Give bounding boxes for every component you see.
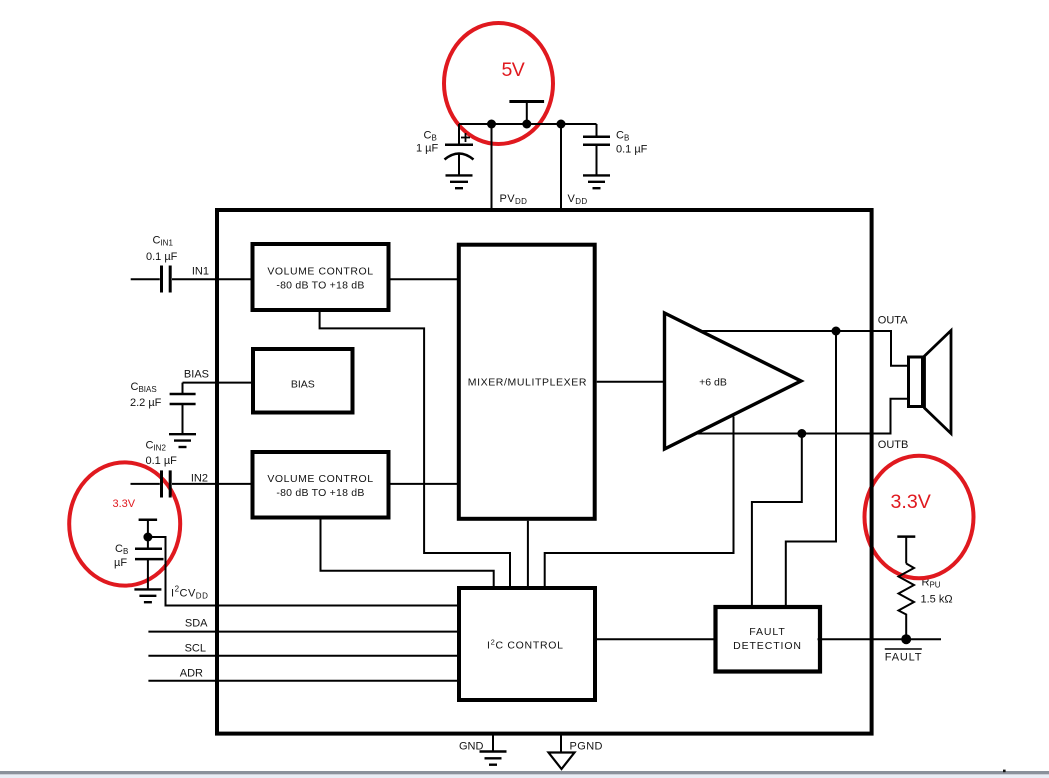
svg-text:OUTA: OUTA [878, 315, 908, 327]
node junction CB left [143, 533, 152, 542]
wire OUTB [695, 399, 909, 434]
svg-text:3.3V: 3.3V [113, 498, 136, 510]
bottom scrollbar strip [0, 771, 1049, 774]
red annotation circle 3.3V right [865, 456, 974, 579]
capacitor CBIAS 2.2uF [130, 381, 196, 434]
wire top supply rail [459, 123, 597, 125]
wire mixer bottom to I2C control [527, 521, 529, 588]
svg-text:VOLUME CONTROL: VOLUME CONTROL [267, 473, 373, 485]
resistor RPU 1.5k pullup [899, 564, 915, 640]
wire ADR [148, 680, 459, 682]
wire GND pin [492, 734, 494, 752]
wire mixer output to amp [597, 381, 665, 383]
pin label FAULT (active low) [885, 649, 922, 664]
node junction FAULT [901, 634, 911, 644]
svg-text:DETECTION: DETECTION [733, 640, 802, 652]
svg-text:OUTB: OUTB [878, 439, 909, 451]
svg-text:IN2: IN2 [191, 473, 208, 485]
wire SDA [148, 631, 459, 633]
svg-text:5V: 5V [502, 59, 525, 81]
block VOLUME CONTROL 1 [253, 244, 389, 310]
wire PGND pin [560, 734, 562, 753]
node junction VDD [557, 120, 566, 129]
svg-text:2.2 µF: 2.2 µF [130, 397, 162, 409]
wire BIAS [183, 382, 254, 384]
capacitor CB 1uF (polarized) [416, 124, 474, 175]
wire SCL [148, 655, 459, 657]
wire I2CVDD [148, 537, 459, 606]
ground (CB left) [134, 589, 161, 602]
wire IN1 [172, 278, 253, 280]
node junction 5V [522, 120, 531, 129]
block FAULT DETECTION [716, 607, 821, 672]
svg-text:IN1: IN1 [192, 266, 209, 278]
resistor RPU label (under red circle) [921, 577, 953, 606]
wire I2C control to fault detection [595, 638, 717, 640]
wire OUTA feedback to fault detection [786, 331, 836, 606]
svg-text:µF: µF [114, 557, 127, 569]
svg-text:SCL: SCL [185, 643, 206, 655]
wire VC1 bottom to I2C control [320, 312, 510, 588]
svg-text:SDA: SDA [185, 618, 208, 630]
IC big box U1 [217, 210, 872, 734]
svg-text:-80 dB TO +18 dB: -80 dB TO +18 dB [276, 487, 364, 499]
block VOLUME CONTROL 2 [253, 452, 389, 518]
svg-text:1 µF: 1 µF [416, 143, 439, 155]
svg-text:FAULT: FAULT [749, 626, 785, 638]
svg-text:FAULT: FAULT [885, 652, 922, 664]
svg-text:0.1 µF: 0.1 µF [616, 144, 648, 156]
svg-text:I2C CONTROL: I2C CONTROL [487, 638, 564, 652]
wire VC1 output to mixer [391, 278, 459, 280]
red annotation circle 3.3V left [69, 462, 180, 585]
svg-text:VOLUME CONTROL: VOLUME CONTROL [267, 265, 373, 277]
wire FAULT output [818, 638, 942, 640]
3.3V supply symbol left [139, 520, 158, 537]
svg-text:MIXER/MULITPLEXER: MIXER/MULITPLEXER [468, 376, 587, 388]
op-amp +6 dB [665, 313, 802, 449]
wire OUTA [701, 331, 909, 366]
wire OUTB feedback to fault detection [752, 434, 802, 607]
wire VDD pin [560, 124, 562, 210]
red annotation circle 5V [444, 23, 553, 144]
svg-text:BIAS: BIAS [291, 378, 315, 390]
capacitor CB 0.1uF [583, 124, 648, 175]
5V supply symbol [509, 100, 544, 124]
svg-text:PGND: PGND [570, 741, 603, 753]
capacitor CIN2 0.1uF [131, 440, 178, 498]
svg-text:-80 dB TO +18 dB: -80 dB TO +18 dB [276, 280, 364, 292]
svg-text:1.5 kΩ: 1.5 kΩ [921, 594, 953, 606]
svg-text:ADR: ADR [180, 668, 203, 680]
speaker LS1 [909, 331, 952, 434]
wire IN2 [172, 483, 253, 485]
svg-text:0.1 µF: 0.1 µF [146, 455, 178, 467]
ground (CB 0.1uF) [583, 175, 610, 188]
block BIAS [253, 349, 353, 413]
ground (CB 1uF) [446, 175, 473, 188]
wire VC2 output to mixer [391, 483, 459, 485]
node junction OUTB [797, 429, 806, 438]
node junction PVDD [487, 120, 496, 129]
svg-text:0.1 µF: 0.1 µF [146, 251, 178, 263]
node junction OUTA [832, 327, 841, 336]
block MIXER/MULITPLEXER [459, 245, 595, 519]
svg-text:BIAS: BIAS [184, 369, 209, 381]
wire VC2 bottom to I2C control [321, 518, 494, 589]
ground (GND pin) [480, 752, 507, 765]
wire amp lower edge to I2C control [545, 417, 734, 589]
3.3V supply symbol right [897, 537, 915, 564]
capacitor CIN1 0.1uF [131, 235, 178, 293]
block I2C CONTROL [459, 588, 595, 700]
ground (CBIAS) [169, 434, 196, 447]
wire PVDD pin [491, 124, 493, 210]
svg-text:+6 dB: +6 dB [699, 376, 727, 388]
capacitor CB uF (I2C supply) [114, 537, 164, 589]
ground PGND (open triangle) [549, 753, 575, 770]
svg-text:3.3V: 3.3V [891, 491, 931, 513]
